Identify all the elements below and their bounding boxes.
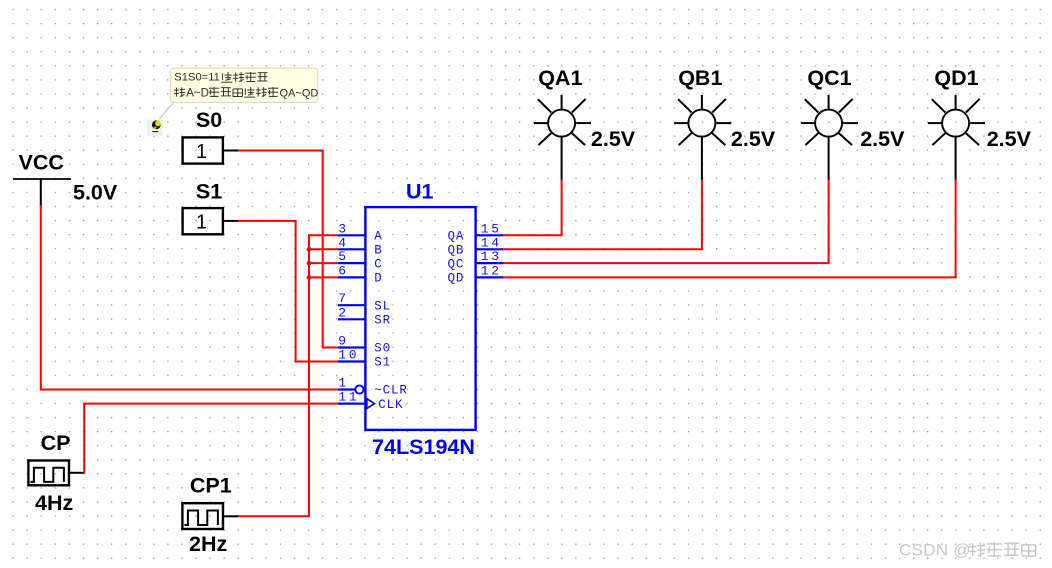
svg-text:QA~QD: QA~QD xyxy=(280,87,319,99)
svg-text:2Hz: 2Hz xyxy=(189,532,227,556)
wire QA1 to pin xyxy=(503,180,561,236)
svg-text:13: 13 xyxy=(481,249,502,264)
svg-text:2.5V: 2.5V xyxy=(731,127,776,151)
pin 1 (~CLR) with bubble xyxy=(338,376,408,398)
wire VCC to U1 ~CLR (pin 1) xyxy=(41,205,338,390)
svg-text:4: 4 xyxy=(338,235,348,250)
svg-text:2.5V: 2.5V xyxy=(591,127,636,151)
wire S0 to U1 S0 (pin 9) xyxy=(238,151,338,348)
pin 7 (SL) xyxy=(338,291,391,313)
lamp QD1 2.5V xyxy=(928,66,1032,180)
annotation note (tooltip) xyxy=(160,68,319,119)
svg-text:QA1: QA1 xyxy=(538,66,582,90)
wire QD1 to pin xyxy=(503,180,955,278)
svg-text:5: 5 xyxy=(338,249,348,264)
svg-text:QA: QA xyxy=(447,230,464,244)
lamp QC1 2.5V xyxy=(801,66,905,180)
wire S1 to U1 S1 (pin 10) xyxy=(238,221,338,362)
svg-text:QD1: QD1 xyxy=(934,66,978,90)
svg-text:1: 1 xyxy=(338,376,348,391)
svg-text:SL: SL xyxy=(374,299,391,313)
wire CP1 to U1 data inputs A-D bus xyxy=(238,235,338,516)
svg-text:QC: QC xyxy=(447,257,464,271)
switch S1 (logic 1 source) xyxy=(183,180,239,235)
svg-text:2.5V: 2.5V xyxy=(860,127,905,151)
wire branch to pin 5 C xyxy=(309,262,338,264)
pin 2 (SR) xyxy=(338,305,391,327)
svg-text:S0: S0 xyxy=(374,342,391,356)
svg-text:QD: QD xyxy=(447,272,464,286)
svg-text:6: 6 xyxy=(338,263,348,278)
wire QC1 to pin xyxy=(503,180,828,264)
svg-text:CLK: CLK xyxy=(378,398,403,412)
clock source CP 4Hz xyxy=(28,431,84,515)
svg-text:A: A xyxy=(374,230,382,244)
svg-text:QB: QB xyxy=(447,244,464,258)
svg-text:S1: S1 xyxy=(374,356,391,370)
svg-text:5.0V: 5.0V xyxy=(73,180,118,204)
svg-text:7: 7 xyxy=(338,291,348,306)
pin 10 (S1) xyxy=(338,348,391,370)
pin 4 (B) xyxy=(338,235,383,257)
pin 15 (QA) xyxy=(447,221,503,243)
svg-text:CP1: CP1 xyxy=(190,474,232,498)
pin 14 (QB) xyxy=(447,235,503,257)
svg-text:1: 1 xyxy=(196,141,207,163)
pin 12 (QD) xyxy=(447,263,503,285)
svg-text:SR: SR xyxy=(374,314,391,328)
watermark CSDN xyxy=(899,540,1036,559)
svg-text:D: D xyxy=(374,272,382,286)
svg-text:9: 9 xyxy=(338,334,348,349)
svg-text:14: 14 xyxy=(481,235,502,250)
svg-text:QB1: QB1 xyxy=(678,66,722,90)
pin 5 (C) xyxy=(338,249,383,271)
svg-text:2: 2 xyxy=(338,305,348,320)
pin 3 (A) xyxy=(338,221,383,243)
svg-text:S1: S1 xyxy=(196,180,222,204)
wire branch to pin 4 B xyxy=(309,248,338,250)
pin 6 (D) xyxy=(338,263,383,285)
svg-text:C: C xyxy=(374,257,382,271)
switch S0 (logic 1 source) xyxy=(183,108,239,163)
svg-text:U1: U1 xyxy=(406,180,434,204)
svg-text:1: 1 xyxy=(196,212,207,234)
svg-text:11: 11 xyxy=(338,390,359,405)
lamp QA1 2.5V xyxy=(534,66,636,180)
lamp QB1 2.5V xyxy=(674,66,776,180)
pin 9 (S0) xyxy=(338,334,391,356)
svg-text:3: 3 xyxy=(338,221,348,236)
pin 13 (QC) xyxy=(447,249,503,271)
svg-text:VCC: VCC xyxy=(19,151,64,175)
note pin icon xyxy=(147,120,163,136)
junction on pin 5 branch xyxy=(307,261,312,266)
wire QB1 to pin xyxy=(503,180,702,250)
junction on pin 6 branch xyxy=(307,275,312,280)
svg-text:B: B xyxy=(374,244,382,258)
svg-text:12: 12 xyxy=(481,263,502,278)
svg-text:15: 15 xyxy=(481,221,502,236)
IC U1 74LS194N body xyxy=(365,180,475,460)
svg-text:4Hz: 4Hz xyxy=(35,491,73,515)
svg-text:10: 10 xyxy=(338,348,359,363)
svg-text:74LS194N: 74LS194N xyxy=(372,435,475,459)
svg-text:CP: CP xyxy=(41,431,71,455)
svg-text:QC1: QC1 xyxy=(807,66,851,90)
svg-text:S1S0=11: S1S0=11 xyxy=(174,72,220,84)
svg-text:CSDN @: CSDN @ xyxy=(899,540,971,559)
svg-text:2.5V: 2.5V xyxy=(987,127,1032,151)
svg-text:~CLR: ~CLR xyxy=(374,384,408,398)
pin 11 (CLK) with edge-trigger triangle xyxy=(338,390,404,412)
svg-text:A~D: A~D xyxy=(186,87,209,99)
power VCC 5.0V xyxy=(13,151,118,207)
junction on pin 4 branch xyxy=(307,247,312,252)
wire CP to U1 CLK (pin 11) xyxy=(84,404,338,474)
wire branch to pin 6 D xyxy=(309,276,338,278)
clock source CP1 2Hz xyxy=(182,474,238,557)
svg-text:S0: S0 xyxy=(196,108,222,132)
